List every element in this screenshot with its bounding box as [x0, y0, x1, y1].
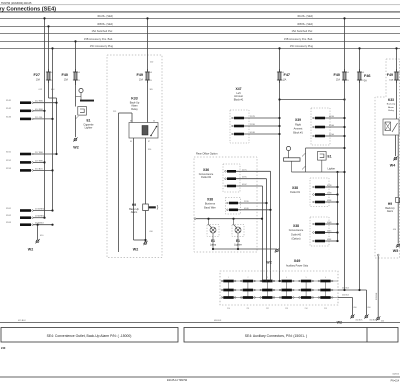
connector X47 housing: [230, 110, 249, 143]
footer separator line: [0, 322, 400, 324]
svg-text:E1: E1: [236, 239, 240, 243]
wire J x=396 from accessory plug bus: [396, 48, 398, 71]
svg-text:1: 1: [228, 277, 229, 279]
svg-text:15C Accessory Plug: 15C Accessory Plug: [90, 44, 114, 48]
svg-text:Auxiliary Power Strip: Auxiliary Power Strip: [286, 265, 309, 268]
footer section box left: [1, 328, 178, 343]
X49 column 2 link: [247, 281, 249, 298]
alarm H9 symbol: [143, 204, 149, 211]
svg-text:219D: 219D: [244, 201, 249, 203]
ground W2 bottom left: [37, 225, 39, 240]
wire alarm right to ground: [397, 202, 399, 243]
svg-text:30: 30: [153, 121, 155, 123]
X38 outlet2 pin 1: [315, 223, 325, 226]
svg-text:5A: 5A: [284, 79, 287, 82]
cross wire F47 to F40 drop: [280, 99, 345, 101]
svg-text:X15/2: X15/2: [6, 160, 11, 162]
bottom rule: [0, 376, 400, 378]
harness terminal group2 pin 3: [20, 169, 31, 172]
svg-text:215B: 215B: [327, 192, 332, 194]
svg-text:30A B+ (SE4): 30A B+ (SE4): [297, 14, 313, 18]
X38 outlet1 pin 1: [315, 186, 325, 189]
X38 outlet1 pin 2: [315, 193, 325, 196]
svg-text:010 BLK: 010 BLK: [376, 292, 378, 300]
relay K33 right wires: [396, 80, 398, 119]
svg-text:Lighter: Lighter: [328, 168, 336, 171]
svg-text:K33: K33: [388, 98, 394, 102]
harness terminal group1 pin 3: [20, 118, 31, 121]
svg-text:217C: 217C: [242, 169, 247, 171]
svg-text:F40: F40: [61, 73, 68, 77]
svg-text:4: 4: [286, 277, 287, 279]
svg-text:SE4: Convenience Outlet, Back-: SE4: Convenience Outlet, Back-Up Alarm P…: [47, 334, 132, 338]
svg-text:E1: E1: [211, 239, 215, 243]
X49 terminal row3 col4: [282, 296, 292, 299]
svg-text:010: 010: [393, 229, 396, 231]
svg-text:219: 219: [113, 111, 116, 113]
svg-text:X16/2: X16/2: [6, 215, 11, 217]
svg-text:F47: F47: [284, 73, 291, 77]
X49 column 4 link: [286, 281, 288, 298]
rear office option dashed box: [194, 157, 257, 252]
svg-text:219 RED: 219 RED: [35, 160, 44, 162]
svg-text:F27: F27: [33, 73, 40, 77]
relay output wire right: [397, 135, 399, 197]
X49 feed wires down: [270, 171, 272, 271]
X49 column 1 link: [228, 281, 230, 298]
svg-text:E1: E1: [328, 155, 332, 159]
X38 business pin 1: [229, 202, 238, 205]
svg-text:Armrest: Armrest: [294, 128, 303, 131]
ground W2 under lighter: [74, 138, 77, 141]
X38 outlet2 pin 3: [315, 240, 325, 243]
svg-text:30A B+ (SE4): 30A B+ (SE4): [97, 14, 113, 18]
X38 outlet1 pin 3: [315, 201, 325, 204]
svg-text:(Option): (Option): [291, 238, 300, 241]
relay K33 right box: [383, 119, 399, 135]
bus line accessory pos batt: [0, 40, 400, 42]
svg-text:012A: 012A: [329, 115, 334, 118]
svg-text:213: 213: [285, 308, 288, 310]
svg-text:W2: W2: [73, 146, 78, 150]
svg-text:305: 305: [150, 89, 153, 91]
svg-text:87: 87: [148, 141, 150, 143]
X39 pin 1: [315, 117, 325, 120]
harness terminal group3 pin 3: [20, 223, 31, 226]
X36 pin 3: [227, 185, 236, 188]
svg-text:X14/3: X14/3: [6, 116, 11, 118]
svg-text:211: 211: [247, 308, 250, 310]
svg-text:210: 210: [150, 62, 153, 64]
svg-text:F46: F46: [364, 74, 371, 78]
X49 terminal row3 col2: [243, 296, 253, 299]
X49 terminal row2 col2: [243, 289, 253, 292]
wire A x=44.5 from bus 30A down: [44, 18, 46, 217]
ground W5 right: [397, 244, 400, 247]
svg-text:Back-Up: Back-Up: [387, 104, 396, 106]
svg-text:6: 6: [325, 277, 326, 279]
svg-text:X14/1: X14/1: [6, 100, 11, 102]
dashed option box right: back-up alarm (later serials): [375, 59, 400, 258]
wire F x=278 from accessory plug bus down to X49: [279, 48, 281, 271]
svg-text:215A: 215A: [329, 133, 334, 136]
X49 column 3 link: [266, 281, 268, 298]
X39 pin 2: [315, 126, 325, 129]
lighter socket symbol: [79, 88, 83, 92]
svg-text:217 RED: 217 RED: [35, 152, 44, 154]
svg-text:Outlet #2: Outlet #2: [291, 233, 302, 236]
connector X38 conv outlet2 housing: [310, 217, 329, 246]
svg-text:Alarm: Alarm: [388, 106, 394, 109]
X49 terminal row3 col3: [262, 296, 272, 299]
lamp E1 Lamp: [207, 225, 219, 237]
harness terminal group3 pin 1: [20, 209, 31, 212]
feed line y=172: [292, 171, 345, 173]
svg-text:214: 214: [305, 308, 308, 310]
title rule: [0, 11, 400, 13]
svg-text:K33: K33: [131, 97, 137, 101]
footer divider: [366, 328, 368, 343]
X49 terminal row1 col4: [282, 280, 292, 283]
svg-text:10A: 10A: [36, 79, 41, 82]
svg-text:042000: 042000: [392, 374, 400, 376]
bus line accessory plug: [0, 47, 400, 49]
fuse F46: [359, 69, 361, 83]
svg-text:X16/3: X16/3: [6, 222, 11, 224]
svg-text:212: 212: [266, 308, 269, 310]
wire C x=52.5 from accessory plug bus down: [52, 48, 54, 210]
X49 terminal row2 col3: [262, 289, 272, 292]
svg-text:15B Accessory Pos. Batt.: 15B Accessory Pos. Batt.: [84, 37, 113, 41]
relay K33 trigger wire: [118, 113, 120, 252]
wire x=337 sub feed: [337, 172, 339, 241]
svg-text:Relay: Relay: [131, 108, 138, 111]
svg-text:15A Switched Pwr.: 15A Switched Pwr.: [292, 29, 314, 33]
X49 terminal row1 col2: [243, 280, 253, 283]
svg-text:X39: X39: [295, 118, 301, 122]
X49 output wire 2: [338, 297, 353, 299]
connector X39 housing: [311, 108, 330, 145]
svg-text:050 BLK: 050 BLK: [342, 288, 350, 290]
svg-text:SE4: Auxiliary Connectors, P/: SE4: Auxiliary Connectors, P/N: (15001- …: [245, 334, 307, 338]
connector X38 business housing: [226, 198, 241, 215]
svg-text:010B: 010B: [250, 132, 255, 134]
lighter socket symbol right: [286, 146, 290, 150]
svg-text:X36: X36: [203, 168, 209, 172]
relay coil ground wire: [133, 138, 135, 240]
svg-text:X38: X38: [207, 198, 213, 202]
svg-text:Right: Right: [295, 123, 301, 126]
svg-text:050 BLK: 050 BLK: [356, 320, 364, 322]
X49 terminal row1 col3: [262, 280, 272, 283]
svg-text:15A: 15A: [336, 79, 341, 82]
X49 feed wires into box: [262, 271, 264, 281]
svg-text:Alarm: Alarm: [131, 211, 138, 214]
wire from fuse to relay: [147, 80, 149, 123]
bus line 30A B+: [0, 17, 400, 19]
X49 terminal row1 col6: [320, 280, 330, 283]
svg-text:219A RED: 219A RED: [35, 215, 45, 218]
svg-text:X14/2: X14/2: [6, 108, 11, 110]
shield drain wire to frame ground: [377, 254, 379, 256]
svg-text:010 BLK: 010 BLK: [35, 168, 43, 170]
svg-text:PN=214: PN=214: [391, 381, 400, 383]
X49 terminal row3 col1: [223, 296, 233, 299]
svg-text:010E: 010E: [327, 200, 332, 202]
svg-text:W2: W2: [133, 248, 138, 252]
svg-text:3: 3: [267, 277, 268, 279]
relay K33 contact: [151, 127, 157, 136]
X49 terminal row2 col5: [301, 289, 311, 292]
svg-text:Lamp: Lamp: [210, 244, 217, 247]
svg-text:215C: 215C: [327, 230, 332, 232]
svg-text:10A: 10A: [139, 79, 144, 82]
svg-text:014 RED: 014 RED: [35, 109, 44, 111]
wire G x=344.5 from bus 30A down: [344, 18, 346, 290]
svg-text:215 YEL: 215 YEL: [35, 117, 44, 119]
svg-text:219C: 219C: [242, 177, 247, 179]
X49 column 6 link: [325, 281, 327, 298]
svg-text:010D: 010D: [244, 208, 249, 210]
svg-text:10A: 10A: [389, 79, 393, 82]
X49 terminal row2 col1: [223, 289, 233, 292]
svg-text:050 BLK: 050 BLK: [342, 295, 350, 297]
fuse F49 right: [396, 69, 398, 83]
harness terminal group1 pin 2: [20, 110, 31, 113]
harness terminal group1 pin 1: [20, 101, 31, 104]
svg-text:W5: W5: [393, 249, 398, 253]
harness terminal group3 pin 2: [20, 216, 31, 219]
svg-text:15A Switched Pwr.: 15A Switched Pwr.: [92, 29, 114, 33]
fuse F47: [279, 69, 281, 83]
relay K33 coil: [142, 126, 148, 136]
svg-text:W2: W2: [28, 248, 33, 252]
X49 column 5 link: [305, 281, 307, 298]
svg-text:F40: F40: [333, 73, 340, 77]
svg-text:Business: Business: [205, 203, 216, 206]
svg-text:012B: 012B: [327, 185, 332, 187]
X49 terminal row3 col6: [320, 296, 330, 299]
svg-text:W4: W4: [390, 164, 395, 168]
X38 outlet2 pin 2: [315, 231, 325, 234]
svg-text:15A: 15A: [64, 79, 69, 82]
fuse F40 right: [344, 69, 346, 83]
X49 output wire 1: [338, 289, 367, 291]
X49 terminal row2 col6: [320, 289, 330, 292]
svg-text:86: 86: [130, 121, 132, 123]
wire from alarm to ground: [145, 196, 147, 204]
harness terminal group2 pin 1: [20, 153, 31, 156]
connector X36 housing: [223, 164, 240, 192]
footer section box right: [184, 328, 398, 343]
svg-text:2: 2: [247, 277, 248, 279]
svg-text:310: 310: [148, 149, 151, 151]
svg-text:H9: H9: [132, 203, 136, 207]
fuse F49: [147, 69, 149, 83]
lighter bracket rails: [305, 148, 307, 172]
dashed option box: back-up alarm harness: [107, 55, 162, 258]
bus line 30B B+: [0, 25, 400, 27]
X49 terminal row1 col5: [301, 280, 311, 283]
svg-text:Rear Office Option: Rear Office Option: [196, 152, 218, 156]
svg-text:014B: 014B: [327, 222, 332, 224]
svg-text:Alarm: Alarm: [387, 210, 393, 213]
svg-text:X15/3: X15/3: [6, 168, 11, 170]
X47 pin 3: [234, 133, 244, 136]
svg-text:E1: E1: [86, 119, 90, 123]
X47 pin 1: [234, 117, 244, 120]
connector X38 outlet1 housing: [310, 178, 329, 207]
X49 row bus wires: [222, 280, 338, 282]
svg-text:X16/1: X16/1: [6, 208, 11, 210]
lamp feed wire: [194, 218, 196, 220]
wire B2 x=56 down: [56, 98, 58, 154]
X47 pin 2: [234, 125, 244, 128]
svg-text:X38: X38: [292, 186, 298, 190]
X49 terminal row2 col4: [282, 289, 292, 292]
lighter element E1 right: [318, 152, 327, 161]
wire D x=76 lighter feed from accessory bus: [75, 41, 77, 85]
svg-text:30B B+ (SE4): 30B B+ (SE4): [297, 22, 313, 26]
svg-text:30B B+ (SE4): 30B B+ (SE4): [97, 22, 113, 26]
svg-text:5A: 5A: [364, 80, 367, 83]
svg-text:X49: X49: [294, 259, 301, 263]
svg-text:010C: 010C: [242, 184, 247, 186]
lamp E1 Lighter: [232, 225, 244, 237]
svg-text:219B: 219B: [250, 124, 255, 126]
fuse F27: [48, 69, 50, 83]
X36 pin 2: [227, 177, 236, 180]
svg-text:F49: F49: [387, 73, 393, 77]
svg-text:014A: 014A: [329, 124, 334, 127]
svg-text:010A BLK: 010A BLK: [35, 222, 45, 225]
X49 terminal row3 col5: [301, 296, 311, 299]
relay K33 box: [129, 123, 158, 139]
svg-text:Block #1: Block #1: [234, 99, 244, 102]
svg-text:F49: F49: [136, 73, 143, 77]
svg-text:050: 050: [368, 307, 371, 309]
svg-text:X15/1: X15/1: [6, 151, 11, 153]
svg-text:Relay: Relay: [388, 110, 394, 112]
header rule above title: [0, 4, 400, 6]
svg-text:H9: H9: [388, 202, 392, 206]
svg-text:15B Accessory Pos. Batt.: 15B Accessory Pos. Batt.: [284, 37, 313, 41]
svg-text:Block #1: Block #1: [293, 132, 303, 135]
svg-text:X47: X47: [235, 87, 241, 91]
svg-text:015 BLK: 015 BLK: [18, 320, 26, 322]
svg-text:15C Accessory Plug: 15C Accessory Plug: [290, 44, 314, 48]
svg-text:Lighter: Lighter: [85, 126, 93, 129]
svg-text:Outlet #2: Outlet #2: [201, 176, 212, 179]
X49 dashed housing: [220, 271, 338, 305]
ground W2 rear office: [276, 249, 279, 252]
svg-text:Outlet #1: Outlet #1: [290, 191, 301, 194]
svg-text:X38: X38: [293, 224, 299, 228]
svg-text:Lighter: Lighter: [234, 244, 242, 247]
alarm H9 right symbol: [396, 198, 399, 203]
relay coil ground right: [395, 135, 397, 156]
fuse F40 left: [75, 69, 77, 83]
harness terminal group2 pin 2: [20, 161, 31, 164]
svg-text:210: 210: [227, 308, 230, 310]
svg-text:W2: W2: [266, 261, 271, 265]
X38 business pin 2: [229, 209, 238, 212]
svg-text:012 RED: 012 RED: [35, 101, 44, 103]
X49 terminal row1 col1: [223, 280, 233, 283]
svg-text:Convenience: Convenience: [289, 229, 304, 232]
svg-text:030 BLK: 030 BLK: [214, 320, 222, 322]
wire H x=359 from accessory plug bus down: [359, 48, 361, 290]
X36 pin 1: [227, 170, 236, 173]
svg-text:5: 5: [306, 277, 307, 279]
lighter element E1: [78, 107, 87, 116]
svg-text:TM1790 (19JUN00) 240-05: TM1790 (19JUN00) 240-05: [1, 2, 32, 5]
wire B x=48.5 from bus 30B through F27: [48, 26, 50, 98]
lamp ground wire: [213, 248, 277, 250]
wire E x=147 from bus 30A down into box: [147, 18, 149, 71]
relay output wire to alarm: [145, 138, 147, 196]
ground W2 middle box: [144, 242, 147, 245]
svg-text:85: 85: [130, 141, 132, 143]
svg-text:050: 050: [354, 307, 357, 309]
svg-text:240-05-14 TM1790: 240-05-14 TM1790: [167, 379, 188, 382]
svg-text:215: 215: [324, 308, 327, 310]
svg-text:050 BLK: 050 BLK: [370, 320, 378, 322]
X39 pin 3: [315, 135, 325, 138]
svg-text:010: 010: [150, 231, 153, 233]
svg-text:217B: 217B: [250, 116, 255, 118]
svg-text:Band Wire: Band Wire: [204, 207, 216, 210]
bus line switched power: [0, 32, 400, 34]
svg-text:240: 240: [1, 346, 6, 350]
svg-text:217A RED: 217A RED: [35, 208, 45, 211]
